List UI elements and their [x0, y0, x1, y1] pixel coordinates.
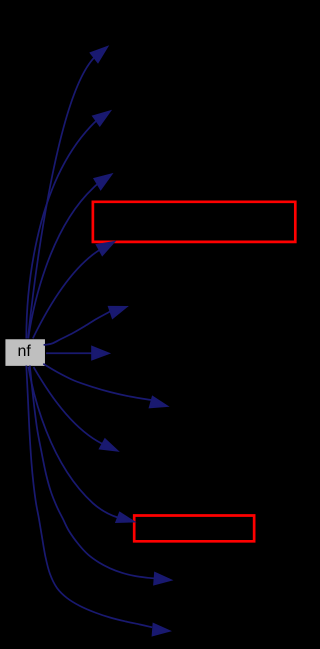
svg-text:nf: nf: [18, 343, 32, 360]
